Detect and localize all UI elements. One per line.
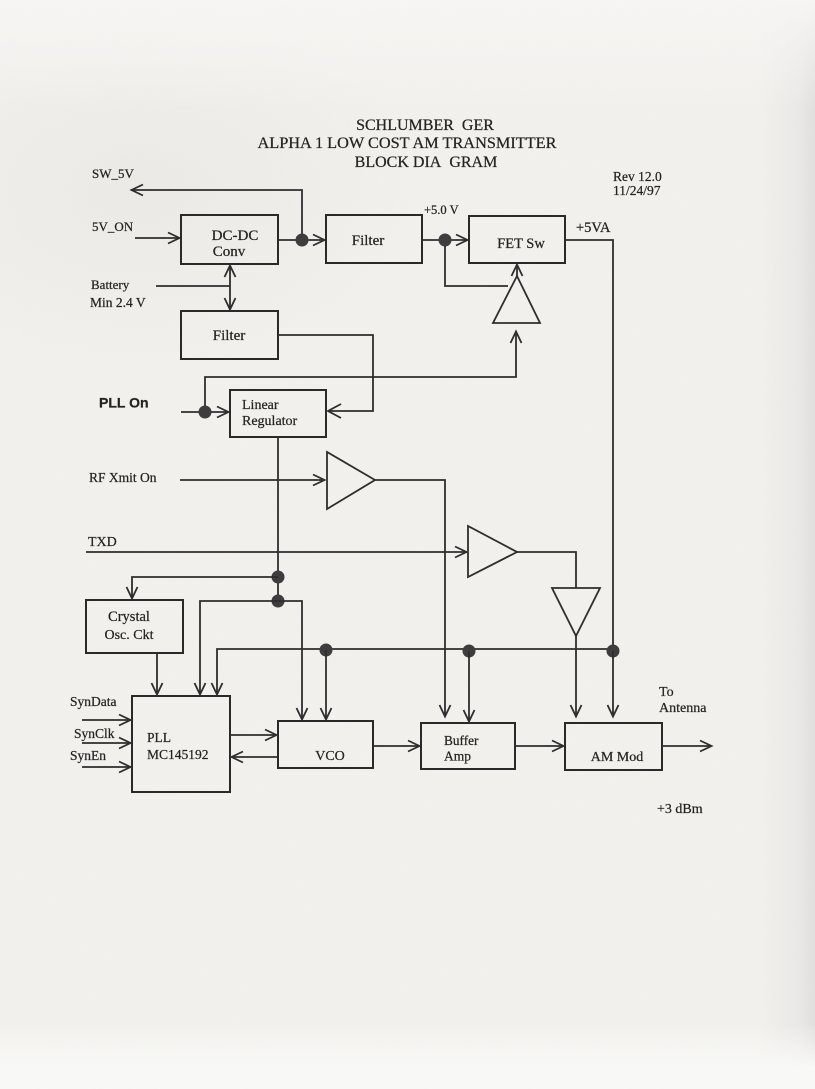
- node junction dot G: [463, 645, 476, 658]
- wire battery feed: [156, 266, 236, 310]
- node junction dot B: [439, 234, 452, 247]
- wire PLL On to FET enable buffer: [205, 332, 522, 407]
- wire linear regulator output down: [277, 437, 279, 595]
- node junction dot E: [272, 595, 285, 608]
- node junction dot F: [320, 644, 333, 657]
- wire to VCO top (from regulator): [278, 601, 308, 720]
- block Linear Regulator: [230, 390, 326, 437]
- wire TXD amp output to inverter: [517, 552, 576, 588]
- node junction dot C: [199, 406, 212, 419]
- node junction dot H: [607, 645, 620, 658]
- wire crystal to PLL: [152, 653, 163, 695]
- wire DC-DC to Filter: [278, 235, 325, 246]
- block DC-DC Conv: [181, 215, 278, 264]
- block FET Sw: [469, 216, 565, 263]
- wire to PLL top (from regulator): [195, 601, 279, 695]
- wire VCO to PLL feedback: [232, 752, 279, 763]
- block Crystal Osc. Ckt: [86, 600, 183, 653]
- wire inverter output to AM Mod: [571, 636, 582, 717]
- block PLL MC145192: [132, 696, 230, 792]
- wire Filter to FET Sw: [422, 235, 468, 246]
- buffer amp triangle (FET switch driver) U1: [493, 276, 540, 323]
- wire PLL to VCO: [230, 730, 277, 741]
- wire 5V_ON input: [135, 233, 180, 244]
- node junction dot D: [272, 571, 285, 584]
- inverter triangle (down) U4: [552, 588, 600, 636]
- node junction dot A: [296, 234, 309, 247]
- wire SynClk: [82, 738, 131, 749]
- block AM Mod: [565, 723, 662, 770]
- wire to crystal oscillator: [127, 577, 279, 599]
- wire +5 to AM Mod: [608, 651, 619, 717]
- wire VCO to Buffer Amp: [374, 741, 420, 752]
- wire TXD input: [86, 547, 467, 558]
- buffer amp triangle (TXD) U3: [468, 526, 517, 577]
- wire Filter2 to Linear Regulator: [278, 335, 373, 418]
- wire triangle to FET Sw bottom: [512, 265, 523, 277]
- title: [258, 117, 557, 171]
- wire SynData: [82, 715, 131, 726]
- net label Battery Min 2.4 V: [90, 277, 146, 310]
- wire PLL On input: [181, 407, 229, 418]
- wire +5.0V to triangle slope: [445, 246, 508, 286]
- wire AM Mod output to antenna: [662, 741, 712, 752]
- revision note: [613, 169, 662, 198]
- block Buffer Amp: [421, 723, 515, 769]
- wire +5 to Buffer Amp: [464, 651, 475, 722]
- net label To Antenna: [659, 685, 707, 716]
- wire SynEn: [82, 762, 131, 773]
- buffer amp triangle (RF Xmit) U2: [327, 452, 375, 509]
- block Filter 1: [326, 215, 422, 263]
- wire RF Xmit output down to Buffer Amp: [375, 480, 451, 717]
- block Filter 2: [181, 311, 278, 359]
- paper texture: [0, 0, 1, 1]
- wire +5 to VCO: [321, 650, 332, 720]
- wire FET Sw output +5VA rail down: [565, 240, 613, 645]
- wire Buffer Amp to AM Mod: [515, 741, 564, 752]
- wire RF Xmit On input: [180, 475, 325, 486]
- wire SW_5V tap: [131, 185, 302, 235]
- wire +5VA distribution rail: [212, 649, 614, 695]
- block VCO: [278, 721, 373, 768]
